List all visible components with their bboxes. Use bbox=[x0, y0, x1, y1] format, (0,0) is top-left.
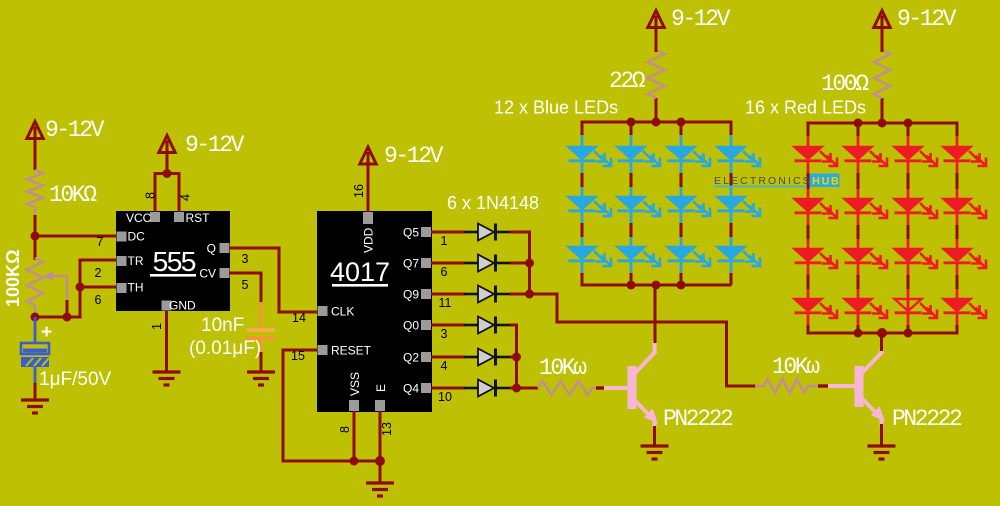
wire R4 to Q1 base bbox=[592, 387, 604, 390]
potentiometer VR1 100K body bbox=[27, 258, 43, 305]
wire 4017 Q5 to diode D1 bbox=[431, 231, 465, 234]
capacitor C1 electrolytic top plate bbox=[21, 343, 49, 354]
wire supply stem bbox=[166, 152, 169, 174]
svg-text:Q0: Q0 bbox=[403, 319, 419, 333]
wire D6 cathode continue bbox=[510, 387, 538, 390]
junction dot red bottom c2 bbox=[854, 329, 863, 338]
wire 100ohm to red bus bbox=[881, 98, 884, 125]
svg-text:TR: TR bbox=[128, 254, 144, 268]
4017 RESET pad pin15 bbox=[318, 345, 328, 355]
wire Q1 emitter to ground bbox=[653, 426, 656, 447]
svg-text:10: 10 bbox=[438, 390, 452, 404]
svg-text:9-12V: 9-12V bbox=[45, 117, 105, 143]
wire wiper down to bottom node bbox=[66, 276, 69, 319]
svg-text:GND: GND bbox=[169, 299, 196, 313]
LED red D28 (col3 row2) bbox=[907, 198, 910, 212]
svg-text:VSS: VSS bbox=[348, 372, 362, 396]
LED blue D15 (col3 row3) bbox=[680, 246, 683, 260]
svg-text:8: 8 bbox=[144, 192, 158, 199]
wire blue LED column 4 lead bbox=[730, 134, 733, 274]
wire 4017 Q4 to diode D6 bbox=[431, 387, 465, 390]
svg-text:6: 6 bbox=[441, 265, 448, 279]
wire 4017 Q0 to diode D4 bbox=[431, 324, 465, 327]
resistor R1 10K ohm vertical bbox=[27, 170, 43, 207]
power arrow 9-12V (red) bbox=[874, 11, 890, 28]
wire node B down to capacitor C1 bbox=[34, 317, 37, 343]
wire 4017 VDD pin16 up bbox=[367, 163, 370, 212]
power arrow +9-12V (left rail) bbox=[27, 122, 43, 139]
svg-text:1: 1 bbox=[441, 234, 448, 248]
svg-text:E: E bbox=[374, 384, 388, 392]
wire 555 GND pin1 down bbox=[165, 311, 168, 373]
diode D2 1N4148 bbox=[464, 262, 478, 265]
ground symbol (555) bbox=[153, 370, 181, 373]
capacitor C1 electrolytic bottom plate (hatched) bbox=[21, 357, 49, 367]
wire riser up to TR level bbox=[79, 259, 82, 318]
4017 Q9 pad pin11 bbox=[421, 289, 431, 299]
wire 4017 VSS pin8 down bbox=[353, 411, 356, 461]
svg-text:12 x Blue LEDs: 12 x Blue LEDs bbox=[494, 98, 618, 118]
4017 Q7 pad pin6 bbox=[421, 258, 431, 268]
wire 4017 RESET pin15 loop bbox=[283, 350, 382, 461]
LED red D34 (col4 row4) bbox=[956, 298, 959, 312]
blue LED array top bus bbox=[582, 122, 731, 135]
svg-text:PN2222: PN2222 bbox=[663, 406, 733, 432]
LED red D25 (col2 row3) bbox=[857, 248, 860, 262]
LED red D19 (col1 row1) bbox=[807, 146, 810, 160]
LED blue D14 (col3 row2) bbox=[680, 196, 683, 210]
wire R2 top bbox=[655, 26, 658, 52]
svg-text:9-12V: 9-12V bbox=[384, 143, 444, 169]
svg-text:VDD: VDD bbox=[362, 227, 376, 253]
svg-text:10Kω: 10Kω bbox=[772, 354, 820, 380]
red LED array top bus bbox=[808, 123, 957, 135]
junction dot blue bottom c3 bbox=[677, 281, 686, 290]
svg-text:5: 5 bbox=[242, 278, 249, 292]
wire power arrow to R1 bbox=[34, 136, 37, 170]
svg-text:9-12V: 9-12V bbox=[671, 6, 731, 32]
wire to ground (4017) bbox=[379, 461, 382, 484]
wire D5 cathode to bus bbox=[510, 356, 517, 359]
power arrow 9-12V (blue) bbox=[648, 11, 664, 28]
svg-text:14: 14 bbox=[292, 311, 306, 325]
svg-text:DC: DC bbox=[128, 230, 146, 244]
LED red D26 (col2 row4) bbox=[857, 298, 860, 312]
wire R1 to node A bbox=[34, 207, 37, 240]
svg-text:4: 4 bbox=[441, 359, 448, 373]
svg-text:2: 2 bbox=[95, 266, 102, 280]
555 CV pad pin5 bbox=[220, 268, 230, 278]
LED blue D8 (col1 row2) bbox=[581, 196, 584, 210]
LED blue D18 (col4 row3) bbox=[730, 246, 733, 260]
LED blue D13 (col3 row1) bbox=[680, 146, 683, 160]
555 TH pad pin6 bbox=[117, 283, 127, 293]
wire blue LED column 2 lead bbox=[630, 134, 633, 274]
wire C1 to ground bbox=[34, 367, 37, 385]
svg-text:4017: 4017 bbox=[330, 257, 390, 287]
node B junction dot bbox=[31, 313, 40, 322]
ground symbol (C2) bbox=[247, 370, 275, 373]
wire R3 top bbox=[881, 26, 884, 52]
diode D1 1N4148 bbox=[464, 231, 478, 234]
wire D4 cathode right and down bbox=[510, 325, 517, 358]
wire CV to C2 (orange lead) bbox=[260, 302, 263, 328]
junction dot D5 join bbox=[512, 353, 521, 362]
555 VCC pad pin8 bbox=[150, 212, 160, 222]
wire Q2 emitter to ground bbox=[880, 424, 883, 447]
resistor R2 22 ohm vertical bbox=[648, 50, 664, 98]
wire blue LED column 1 lead bbox=[581, 134, 584, 274]
4017 VDD pad pin16 bbox=[363, 212, 373, 224]
diode D4 1N4148 bbox=[464, 324, 478, 327]
wire R5 to Q2 base bbox=[808, 385, 820, 388]
svg-text:9-12V: 9-12V bbox=[897, 6, 957, 32]
LED red D31 (col4 row1) bbox=[956, 146, 959, 160]
ground symbol (Q2) bbox=[868, 444, 896, 447]
junction dot blue top c2 bbox=[627, 118, 636, 127]
LED blue D10 (col2 row1) bbox=[630, 146, 633, 160]
junction dot red top center bbox=[878, 119, 887, 128]
junction dot at TH level bbox=[76, 283, 85, 292]
svg-text:10KΩ: 10KΩ bbox=[49, 182, 97, 208]
LED red D23 (col2 row1) bbox=[857, 146, 860, 160]
wire node A to potentiometer bbox=[34, 236, 37, 260]
junction dot red top c3 bbox=[904, 119, 913, 128]
wire VCC-RST tie bar bbox=[154, 172, 181, 175]
LED red D30 (col3 row4) bbox=[907, 298, 910, 312]
svg-text:RESET: RESET bbox=[331, 344, 372, 358]
transistor Q2 collector bbox=[862, 351, 883, 373]
svg-text:9-12V: 9-12V bbox=[185, 132, 245, 158]
wire 555 RST pin4 up bbox=[178, 172, 181, 212]
555 TR pad pin2 bbox=[117, 256, 127, 266]
node A junction dot bbox=[31, 232, 40, 241]
LED blue D9 (col1 row3) bbox=[581, 246, 584, 260]
wire 555 Q pin3 to 4017 CLK pin14 bbox=[229, 248, 317, 312]
wire 4017 Q7 to diode D2 bbox=[431, 262, 465, 265]
wire node A to 555 DC pin7 bbox=[34, 235, 117, 238]
junction dot D2 join bbox=[525, 259, 534, 268]
diode D3 1N4148 bbox=[464, 293, 478, 296]
LED blue D7 (col1 row1) bbox=[581, 146, 584, 160]
LED blue D12 (col2 row3) bbox=[630, 246, 633, 260]
svg-text:6 x 1N4148: 6 x 1N4148 bbox=[447, 193, 539, 213]
svg-text:1: 1 bbox=[150, 323, 164, 330]
svg-text:15: 15 bbox=[291, 349, 305, 363]
svg-text:(0.01μF): (0.01μF) bbox=[189, 338, 261, 359]
junction dot E-ground bbox=[375, 456, 385, 466]
4017 Q0 pad pin3 bbox=[421, 320, 431, 330]
LED red D27 (col3 row1) bbox=[907, 146, 910, 160]
svg-text:Q: Q bbox=[207, 242, 216, 256]
svg-text:PN2222: PN2222 bbox=[892, 406, 962, 432]
svg-text:VCC: VCC bbox=[126, 211, 152, 225]
wire D2 cathode to bus bbox=[510, 262, 530, 265]
diode D6 1N4148 bbox=[464, 387, 478, 390]
555 RST pad pin4 bbox=[174, 212, 184, 222]
wire node B horizontal to TR/TH riser bbox=[34, 316, 82, 319]
junction dot 555 supply bbox=[163, 169, 172, 178]
wire D3 cathode to bus bbox=[510, 293, 530, 296]
svg-text:100KΩ: 100KΩ bbox=[3, 250, 23, 307]
ground symbol (4017) bbox=[366, 481, 394, 484]
svg-text:8: 8 bbox=[338, 426, 352, 433]
wire 4017 Q9 to diode D3 bbox=[431, 293, 465, 296]
wire C2 to ground bbox=[260, 340, 263, 354]
transistor Q1 base bar bbox=[628, 366, 637, 409]
ground symbol (Q1) bbox=[641, 444, 669, 447]
4017 E pad pin13 bbox=[375, 400, 385, 411]
LED red D29 (col3 row3) bbox=[907, 248, 910, 262]
svg-text:TH: TH bbox=[128, 281, 144, 295]
svg-text:3: 3 bbox=[441, 327, 448, 341]
wire 555 VCC pin8 up bbox=[154, 172, 157, 212]
diode D5 1N4148 bbox=[464, 356, 478, 359]
4017 Q2 pad pin4 bbox=[421, 352, 431, 362]
svg-text:6: 6 bbox=[95, 293, 102, 307]
red LED array bottom bus bbox=[807, 332, 959, 335]
svg-text:HUB: HUB bbox=[812, 176, 840, 188]
potentiometer wiper arrow bbox=[48, 275, 67, 278]
svg-text:+: + bbox=[41, 322, 52, 343]
junction dot blue top center bbox=[652, 118, 661, 127]
wire D1 cathode right and down bbox=[510, 232, 530, 264]
svg-text:1μF/50V: 1μF/50V bbox=[39, 369, 112, 390]
IC U2 4017 body bbox=[317, 211, 432, 412]
wire red LED column 1 lead bbox=[807, 135, 810, 326]
ground symbol (C1) bbox=[21, 398, 49, 401]
LED red D24 (col2 row2) bbox=[857, 198, 860, 212]
wire red LED column 3 lead bbox=[907, 135, 910, 326]
IC U1 555 body bbox=[116, 211, 230, 311]
4017 Q5 pad pin1 bbox=[421, 227, 431, 237]
svg-text:Q7: Q7 bbox=[403, 257, 419, 271]
svg-text:CV: CV bbox=[199, 267, 216, 281]
svg-text:Q4: Q4 bbox=[403, 382, 419, 396]
transistor Q2 base bar bbox=[855, 366, 864, 407]
LED red D22 (col1 row4) bbox=[807, 298, 810, 312]
junction dot D6 join bbox=[512, 384, 521, 393]
junction dot VSS-ground bbox=[350, 457, 359, 466]
svg-text:3: 3 bbox=[242, 252, 249, 266]
wire D5-D6 riser bbox=[515, 357, 518, 390]
wire odd-group to Q2 base resistor (long route) bbox=[528, 294, 756, 386]
wire Q1 collector to blue LED bus bbox=[654, 285, 657, 343]
LED red D20 (col1 row2) bbox=[807, 198, 810, 212]
svg-text:RST: RST bbox=[186, 211, 211, 225]
wire riser to 555 TH pin6 bbox=[80, 286, 116, 289]
transistor Q1 collector bbox=[635, 351, 656, 373]
junction dot blue top c3 bbox=[677, 118, 686, 127]
555 GND pad pin1 bbox=[162, 301, 172, 311]
svg-text:ELECTRONICS: ELECTRONICS bbox=[714, 175, 812, 187]
power arrow 9-12V (555) bbox=[159, 136, 175, 153]
wire Q2 collector to red LED bus bbox=[880, 333, 883, 351]
capacitor C2 10nF plates bbox=[247, 328, 275, 332]
svg-text:16: 16 bbox=[352, 184, 366, 198]
LED blue D16 (col4 row1) bbox=[730, 146, 733, 160]
svg-text:13: 13 bbox=[380, 422, 394, 436]
wire 4017 Q2 to diode D5 bbox=[431, 356, 465, 359]
junction dot red top c2 bbox=[854, 119, 863, 128]
LED blue D11 (col2 row2) bbox=[630, 196, 633, 210]
wire D2-D3 riser bbox=[528, 263, 531, 296]
svg-text:100Ω: 100Ω bbox=[821, 71, 869, 97]
svg-text:Q9: Q9 bbox=[403, 288, 419, 302]
svg-text:10nF: 10nF bbox=[201, 315, 244, 336]
wire 22ohm to blue bus bbox=[655, 98, 658, 124]
wire 4017 E pin13 down bbox=[379, 411, 382, 461]
power arrow 9-12V (4017) bbox=[360, 147, 376, 164]
wire blue LED column 3 lead bbox=[680, 134, 683, 274]
wire red LED column 2 lead bbox=[857, 135, 860, 326]
junction dot blue bottom c2 bbox=[627, 281, 636, 290]
4017 VSS pad pin8 bbox=[349, 400, 359, 411]
LED red D33 (col4 row3) bbox=[956, 248, 959, 262]
resistor R4 10K (blue base) bbox=[538, 381, 592, 395]
LED red D21 (col1 row3) bbox=[807, 248, 810, 262]
junction dot D3 join bbox=[525, 290, 534, 299]
transistor Q1 emitter bbox=[635, 401, 651, 418]
wire riser to 555 TR pin2 bbox=[80, 259, 116, 262]
junction dot red bottom center bbox=[877, 328, 887, 338]
555 DC pad pin7 bbox=[117, 232, 127, 242]
junction dot red bottom c3 bbox=[904, 329, 913, 338]
4017 CLK pad pin14 bbox=[318, 306, 328, 316]
transistor Q2 emitter bbox=[862, 399, 878, 416]
wire 555 CV pin5 down bbox=[229, 273, 261, 304]
svg-text:16 x Red LEDs: 16 x Red LEDs bbox=[745, 98, 866, 118]
svg-text:Q5: Q5 bbox=[403, 226, 419, 240]
svg-text:7: 7 bbox=[97, 235, 104, 249]
svg-text:10Kω: 10Kω bbox=[539, 355, 587, 381]
junction dot blue bottom center bbox=[652, 281, 661, 290]
svg-text:Q2: Q2 bbox=[403, 351, 419, 365]
wire VR1 bottom to node B bbox=[34, 305, 37, 317]
LED blue D17 (col4 row2) bbox=[730, 196, 733, 210]
resistor R3 100 ohm vertical bbox=[874, 50, 890, 98]
resistor R5 10K (red base) bbox=[764, 379, 808, 393]
LED red D32 (col4 row2) bbox=[956, 198, 959, 212]
svg-text:4: 4 bbox=[179, 194, 193, 201]
blue LED array bottom bus bbox=[581, 284, 732, 287]
4017 Q4 pad pin10 bbox=[421, 383, 431, 393]
555 Q pad pin3 bbox=[220, 243, 230, 253]
svg-text:CLK: CLK bbox=[331, 305, 354, 319]
svg-text:22Ω: 22Ω bbox=[609, 68, 646, 94]
wiper junction dot bbox=[63, 313, 72, 322]
wire red LED column 4 lead bbox=[956, 135, 959, 326]
svg-text:11: 11 bbox=[439, 296, 452, 310]
